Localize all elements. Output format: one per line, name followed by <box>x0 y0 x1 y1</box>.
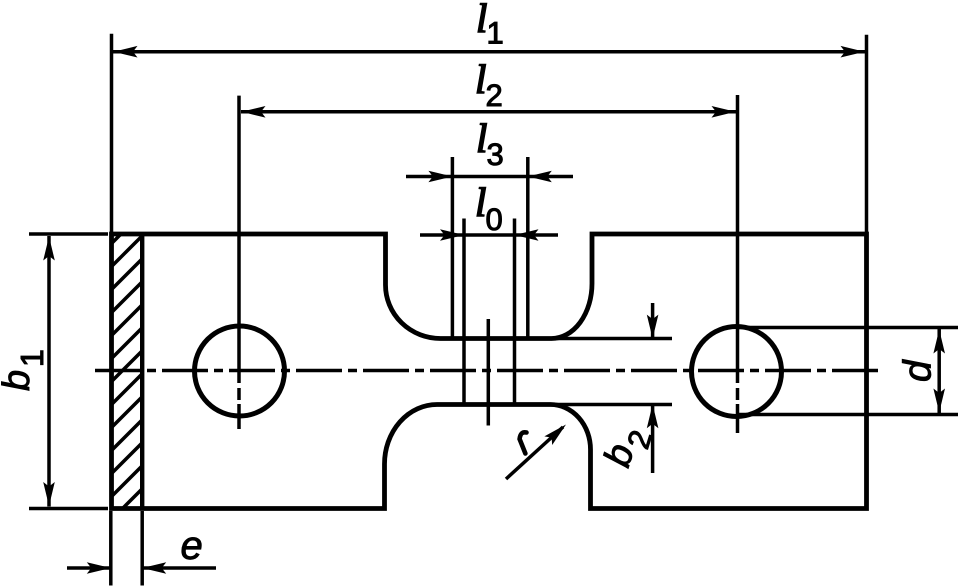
l0 extension / gauge lines <box>462 219 466 404</box>
l1 extension left <box>110 34 114 234</box>
label l3 <box>478 124 502 166</box>
label e <box>182 537 201 559</box>
d dimension <box>937 329 941 413</box>
l1 extension right <box>865 35 869 234</box>
b2 extension lines <box>552 337 673 341</box>
hole left <box>195 326 285 416</box>
center gauge mark <box>487 319 491 426</box>
centerline vertical left hole / l2 extension <box>237 96 241 371</box>
b1 dimension <box>47 236 51 507</box>
r leader arrow <box>506 427 563 479</box>
d extension / tangent lines <box>739 326 958 330</box>
label r <box>520 432 527 453</box>
hatch lines <box>108 207 148 546</box>
centerline horizontal <box>95 369 884 373</box>
l0 dimension <box>464 233 515 237</box>
label b1 <box>1 351 43 391</box>
l3 extension lines <box>451 157 455 338</box>
hatch band right border <box>140 234 144 509</box>
label l1 <box>478 4 502 44</box>
l2 dimension <box>241 110 736 114</box>
l1 dimension <box>113 50 865 54</box>
b2 dimension <box>651 303 655 339</box>
label d <box>902 359 931 380</box>
centerline vertical right hole / l2 extension <box>736 95 740 371</box>
l3 dimension <box>452 175 527 179</box>
label l2 <box>477 65 501 106</box>
e extension lines <box>109 511 113 586</box>
label b2 <box>602 424 652 472</box>
hole right <box>692 327 782 417</box>
b1 extension lines <box>29 232 108 236</box>
label l0 <box>477 188 501 231</box>
specimen outline <box>112 234 867 509</box>
e dimension <box>67 566 111 570</box>
